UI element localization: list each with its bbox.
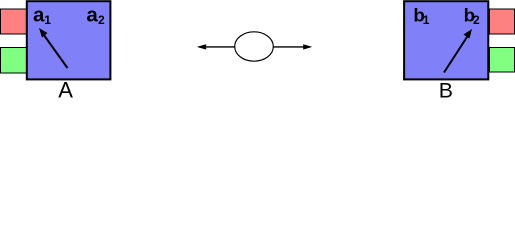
svg-text:2: 2: [473, 13, 480, 27]
device B square: [404, 1, 488, 79]
svg-text:B: B: [439, 79, 453, 101]
svg-text:1: 1: [44, 13, 51, 27]
double-headed arrow between A and B: [197, 44, 312, 49]
svg-text:a: a: [86, 4, 98, 27]
svg-text:1: 1: [423, 13, 430, 27]
channel ellipse: [235, 32, 274, 61]
green port box right of B: [490, 48, 515, 73]
svg-text:A: A: [58, 78, 73, 101]
svg-text:2: 2: [98, 13, 105, 27]
device A square: [27, 1, 111, 79]
svg-text:a: a: [33, 4, 45, 27]
arrow inside A pointing to a1: [39, 28, 68, 68]
arrow inside B pointing to b2: [444, 29, 472, 73]
green port box left of A: [1, 48, 28, 74]
red port box right of B: [490, 9, 515, 34]
red port box left of A: [1, 9, 28, 34]
